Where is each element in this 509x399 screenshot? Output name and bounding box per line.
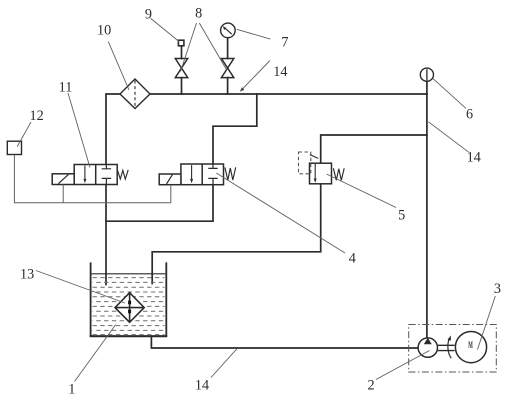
svg-text:6: 6 [466, 106, 473, 122]
svg-text:14: 14 [273, 64, 287, 80]
svg-text:4: 4 [349, 251, 356, 267]
svg-text:10: 10 [97, 23, 111, 39]
svg-text:1: 1 [68, 381, 75, 397]
svg-text:14: 14 [467, 150, 481, 166]
svg-text:9: 9 [145, 6, 152, 22]
svg-text:2: 2 [367, 378, 374, 394]
svg-text:8: 8 [195, 5, 202, 21]
svg-text:14: 14 [195, 378, 209, 394]
svg-text:7: 7 [281, 35, 288, 51]
svg-text:5: 5 [398, 208, 405, 224]
svg-text:M: M [468, 340, 473, 350]
svg-text:12: 12 [30, 108, 44, 124]
svg-text:11: 11 [59, 80, 73, 96]
svg-text:3: 3 [494, 281, 501, 297]
svg-text:13: 13 [20, 266, 34, 282]
